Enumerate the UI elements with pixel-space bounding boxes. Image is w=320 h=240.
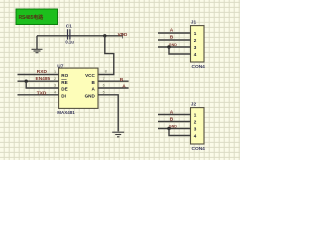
wire J2 B (158, 117, 191, 123)
svg-text:2: 2 (194, 119, 197, 124)
wire J2 jumper (169, 129, 191, 136)
svg-text:4: 4 (194, 133, 197, 138)
svg-text:RE: RE (61, 80, 67, 85)
node J2 pin3-4 (167, 127, 170, 130)
svg-text:A: A (170, 27, 174, 33)
node RE-DE tie (25, 80, 28, 83)
svg-text:1: 1 (54, 70, 56, 74)
svg-text:J1: J1 (191, 19, 197, 25)
wire RXD (18, 69, 59, 75)
connector J1 (191, 19, 206, 70)
pin numbers U7 (54, 70, 107, 95)
wire GND drop (98, 95, 118, 132)
svg-text:VCC: VCC (85, 73, 95, 78)
wire J1 jumper (169, 47, 191, 54)
ground (32, 36, 43, 53)
svg-text:GND: GND (85, 94, 96, 99)
svg-text:3: 3 (194, 45, 197, 50)
svg-text:C1: C1 (66, 24, 72, 30)
svg-text:DE: DE (61, 87, 67, 92)
wire J1 B (158, 34, 191, 40)
title block RS485 (16, 9, 58, 25)
svg-text:RS485电路: RS485电路 (19, 14, 45, 21)
pin names U7 (61, 73, 95, 98)
wire TXD (18, 90, 59, 96)
wire J2 A (158, 110, 191, 116)
svg-text:CON4: CON4 (192, 64, 206, 70)
svg-text:5: 5 (103, 91, 105, 95)
sheet background (0, 0, 240, 160)
svg-text:VDD: VDD (118, 32, 128, 37)
svg-text:B: B (170, 117, 174, 123)
svg-text:RXD: RXD (37, 69, 48, 75)
svg-text:3: 3 (54, 84, 56, 88)
svg-text:A: A (170, 110, 174, 116)
wire B (98, 77, 129, 83)
svg-text:2: 2 (54, 77, 56, 81)
svg-text:8: 8 (105, 70, 107, 74)
svg-text:DI: DI (61, 94, 66, 99)
svg-text:A: A (122, 84, 126, 90)
svg-text:7: 7 (103, 77, 105, 81)
wire J2 GND (158, 125, 191, 129)
svg-text:1: 1 (194, 112, 197, 117)
connector J2 (191, 101, 206, 152)
svg-text:B: B (120, 77, 124, 83)
node J1 pin3-4 (167, 45, 170, 48)
wire A (98, 84, 129, 90)
power port VDD (118, 32, 128, 38)
svg-text:RO: RO (61, 73, 68, 78)
svg-text:3: 3 (194, 126, 197, 131)
svg-text:2: 2 (194, 38, 197, 43)
svg-text:0.1u: 0.1u (65, 39, 74, 44)
wire DE branch (26, 81, 58, 88)
op chip U7 MAX481 (57, 63, 98, 115)
ground (112, 132, 124, 137)
svg-text:B: B (170, 34, 174, 40)
pin names J1 (194, 31, 197, 57)
svg-text:4: 4 (54, 91, 56, 95)
svg-text:CON4: CON4 (192, 146, 206, 152)
wire VDD to pin8 (98, 36, 114, 75)
svg-text:U7: U7 (57, 63, 63, 69)
pin names J2 (194, 112, 197, 138)
svg-text:TXD: TXD (37, 90, 47, 96)
wire J1 A (158, 27, 191, 33)
capacitor C1 (65, 24, 74, 45)
node VDD junction (103, 34, 106, 37)
svg-text:4: 4 (194, 52, 197, 57)
wire J1 GND (158, 43, 191, 47)
wire cap rail (37, 35, 122, 37)
svg-text:1: 1 (194, 31, 197, 36)
svg-text:MAX481: MAX481 (57, 110, 75, 115)
wire EN485 (18, 76, 59, 82)
svg-text:J2: J2 (191, 101, 197, 107)
svg-text:EN485: EN485 (36, 76, 51, 82)
svg-text:6: 6 (103, 84, 105, 88)
